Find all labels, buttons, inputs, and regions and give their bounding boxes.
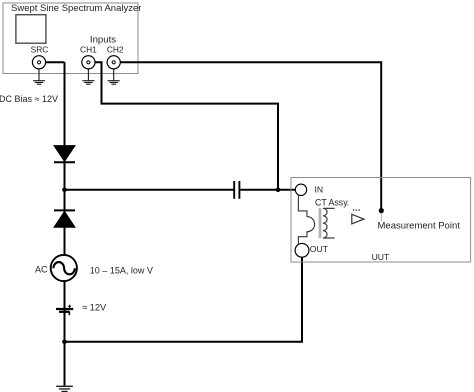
capacitor C1 [234,181,239,199]
CT secondary winding [323,208,335,238]
node junction left-mid [62,188,67,193]
svg-text:Measurement Point: Measurement Point [378,221,461,232]
wire OUT down and left to bus [65,256,303,342]
amplifier triangle [352,214,364,224]
leader line [380,213,382,221]
svg-text:10 – 15A, low V: 10 – 15A, low V [90,266,153,276]
connector IN [295,184,306,195]
node junction bottom-left [62,340,67,345]
svg-text:AC: AC [35,265,48,275]
svg-text:Swept Sine Spectrum Analyzer: Swept Sine Spectrum Analyzer [11,3,141,14]
node measurement point [379,208,384,213]
wire main horizontal left of capacitor [65,189,234,191]
diode D2 [54,210,75,227]
wire left vertical bus [64,62,66,385]
wire CH2 to measurement point [120,62,381,208]
svg-text:UUT: UUT [372,252,390,262]
svg-text:OUT: OUT [310,244,329,254]
svg-text:CT Assy.: CT Assy. [315,197,349,207]
ground bottom [56,386,73,391]
wire CH1 down to mid horizontal [95,62,278,190]
ground under CH1 [82,69,94,84]
svg-text:≈ 12V: ≈ 12V [82,303,107,313]
svg-text:IN: IN [315,185,324,195]
ground under CH2 [108,69,120,84]
CT core [319,208,322,238]
connector CH2 [107,56,120,69]
wire SRC to left bus [46,61,65,63]
svg-text:SRC: SRC [31,44,49,54]
svg-text:CH1: CH1 [80,44,97,54]
AC source [51,255,77,281]
connector CH1 [82,56,95,69]
ground under SRC [33,69,45,84]
diode D1 [54,146,75,163]
connector OUT [295,243,309,257]
battery B1 [56,305,73,316]
CT primary conductor [298,195,314,244]
svg-text:DC Bias ≈ 12V: DC Bias ≈ 12V [0,94,58,104]
display square [16,15,46,44]
node junction at capacitor output [276,188,281,193]
wire capacitor to IN [240,189,295,191]
connector SRC [32,56,45,69]
UUT box [291,178,471,263]
analyzer box [3,3,138,74]
ellipsis dots [353,209,360,211]
svg-text:CH2: CH2 [107,44,124,54]
